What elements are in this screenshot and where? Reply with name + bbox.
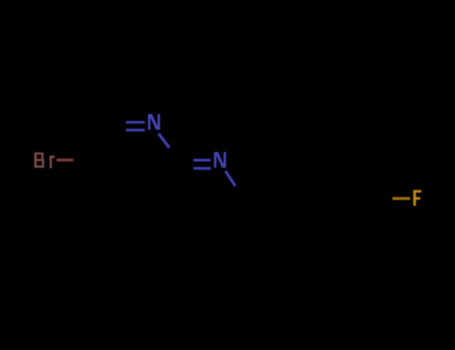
- atom label F: [413, 190, 421, 206]
- wire: bond C7-C1': [245, 200, 273, 201]
- bond C6=N1 double bond (blue half, bottom line): [126, 129, 145, 132]
- atom label Br (letter r): [50, 156, 55, 169]
- bond N2-C7 (blue half): [225, 171, 235, 186]
- invisible carbon skeleton (black on black), pyridine ring C5-C6-N1-C2-C3-C4: [90, 124, 367, 241]
- bond C2=N2 double bond (blue half, bottom line): [193, 167, 210, 170]
- wire: benzene ring C1'-C2'-C3'-C4'-C5'-C6': [273, 160, 367, 241]
- bond C6=N1 double bond (blue half, top line): [126, 121, 145, 124]
- atom label N2 (imine nitrogen): [214, 152, 226, 168]
- atom label N1 (pyridine ring nitrogen): [148, 114, 160, 130]
- bond C2=N2 double bond (blue half, top line): [193, 159, 210, 162]
- wire: bond C2-C3: [160, 161, 179, 206]
- wire: bond C5-C6: [90, 124, 106, 160]
- wire: bond C3-C4: [112, 204, 160, 207]
- bond C4'-F (gold half): [392, 197, 410, 200]
- bond Br-C5 (red half): [57, 159, 74, 162]
- wire: bond C4-C5: [90, 160, 112, 205]
- bond N1-C2 (blue half): [159, 134, 170, 148]
- atom label Br (letter B): [34, 152, 44, 167]
